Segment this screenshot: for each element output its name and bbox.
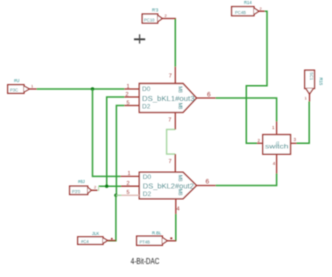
svg-text:4: 4	[273, 161, 276, 166]
U1 bottom pin stub	[174, 112, 176, 129]
U1 pin 3 stub	[124, 105, 139, 107]
svg-text:(2: (2	[276, 141, 279, 145]
svg-text:4-Bit-DAC: 4-Bit-DAC	[131, 257, 160, 266]
U2 pin 1 stub	[121, 175, 140, 177]
op-amp U2 mux body	[139, 172, 196, 199]
U1 top pin stub	[174, 67, 176, 84]
svg-text:7: 7	[169, 159, 172, 165]
svg-text:2: 2	[126, 92, 129, 98]
svg-text:DS_bKL1#out3: DS_bKL1#out3	[142, 96, 195, 103]
svg-text:6: 6	[206, 179, 210, 186]
svg-text:SC1: SC1	[309, 72, 314, 81]
svg-text:R15: R15	[319, 78, 324, 86]
svg-text:2: 2	[258, 138, 261, 143]
svg-text:1: 1	[305, 96, 308, 101]
svg-text:5: 5	[127, 190, 130, 196]
wire net VREF from top-right port to S1 left pin	[246, 11, 267, 143]
svg-text:2: 2	[260, 6, 263, 11]
wire net CLK1 from top port to U1 top pin	[174, 19, 176, 67]
wire net A1 from port JP3 to U2 pin2	[99, 185, 121, 187]
U1 pin 1 stub	[124, 88, 139, 90]
svg-text:P3C: P3C	[10, 88, 18, 93]
port PC10 top flag	[142, 8, 175, 24]
svg-text:#C4: #C4	[81, 239, 89, 244]
svg-text:M8: M8	[177, 189, 183, 196]
port PC4B bottom flag	[137, 231, 177, 246]
svg-text:3: 3	[294, 137, 297, 142]
svg-text:6: 6	[207, 92, 211, 99]
S1 top pin stub	[276, 122, 278, 135]
wire net A2 vertical U1 pin3 to U2 pin5	[116, 106, 124, 196]
port PC4B top right flag	[232, 0, 265, 16]
svg-text:D2: D2	[142, 104, 151, 111]
wire net A0 horizontal from port to U1 pin 1	[37, 88, 125, 90]
wire net OUT2 from S1 bottom pin to U2 output	[216, 174, 277, 186]
wire net A2 pale stub to U2 pin5	[116, 194, 122, 196]
svg-text:JLK: JLK	[92, 231, 99, 236]
S1 right pin stub	[291, 142, 297, 144]
svg-text:5: 5	[127, 100, 130, 106]
svg-text:M8: M8	[177, 86, 183, 93]
U2 output stub pin 6	[197, 185, 216, 187]
port SC1 right vertical flag	[305, 70, 324, 101]
wire net A2 down to port PC4	[108, 195, 116, 240]
svg-text:D0: D0	[143, 174, 152, 181]
op-amp U1 mux body	[139, 84, 196, 113]
wire net A1 vertical U1 pin2 to U2 pin2	[107, 97, 125, 186]
wire net OUT1 from U1 output to S1 top pin	[216, 98, 277, 122]
S1 left pin stub	[257, 142, 263, 144]
svg-text:2: 2	[165, 13, 168, 18]
svg-text:1: 1	[128, 171, 131, 177]
svg-text:1: 1	[272, 125, 275, 130]
svg-text:DS_bKL2#out2: DS_bKL2#out2	[143, 183, 194, 190]
svg-text:7: 7	[169, 74, 172, 80]
svg-text:D2: D2	[143, 191, 152, 198]
node A2 junction dot	[114, 194, 117, 197]
svg-text:2: 2	[94, 185, 97, 190]
svg-text:R.BL: R.BL	[152, 231, 162, 236]
wire net SEL2 from U2 bottom pin to port PC4B	[175, 214, 177, 241]
svg-text:PC10: PC10	[144, 17, 155, 22]
svg-text:PC4B: PC4B	[235, 10, 246, 15]
svg-text:M8: M8	[177, 103, 183, 110]
S1 bottom pin stub	[276, 154, 278, 173]
svg-text:2: 2	[127, 181, 130, 187]
wire net A0 vertical drop to U2 pin 1	[93, 89, 121, 176]
wire pale net between U1 bottom pin and U2 top pin	[167, 129, 176, 154]
U2 bottom pin stub	[175, 199, 177, 214]
svg-text:7: 7	[168, 118, 171, 124]
svg-text:1: 1	[127, 84, 130, 90]
svg-text:P3'0: P3'0	[72, 189, 81, 194]
U2 pin 5 stub pale	[122, 194, 140, 196]
svg-text:PT4B: PT4B	[140, 239, 151, 244]
port PC1 left input flag	[8, 78, 37, 93]
port JP3 middle-left flag	[70, 179, 99, 195]
svg-text:#U: #U	[14, 78, 19, 83]
origin cross marker	[134, 34, 145, 43]
svg-text:R'3: R'3	[152, 8, 159, 13]
svg-text:M8: M8	[177, 175, 183, 182]
U1 pin 2 stub	[124, 96, 139, 98]
node A1 junction dot	[105, 185, 108, 188]
svg-text:R14: R14	[244, 0, 252, 5]
U2 pin 2 stub	[121, 185, 139, 187]
port PC4 bottom flag	[78, 231, 116, 244]
node A0 junction dot	[91, 87, 94, 90]
svg-text:D0: D0	[142, 86, 151, 93]
U2 top pin stub	[174, 154, 176, 172]
U1 output stub pin 6	[197, 97, 216, 99]
svg-text:1: 1	[31, 84, 34, 89]
switch S1 body	[263, 135, 291, 155]
wire net SEL from right port to S1 right pin	[297, 102, 310, 144]
svg-text:#8J: #8J	[78, 179, 85, 184]
svg-text:4: 4	[177, 207, 180, 213]
